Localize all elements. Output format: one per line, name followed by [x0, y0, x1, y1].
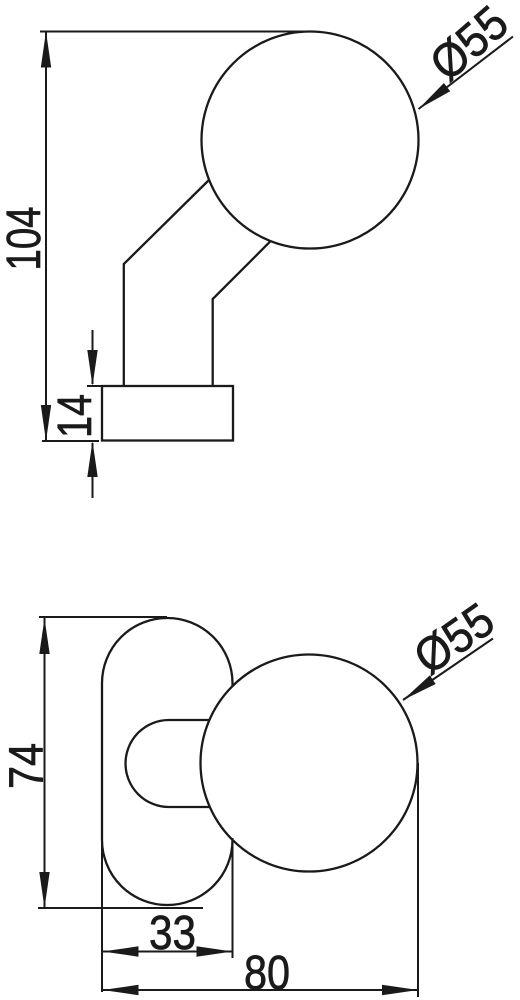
svg-text:104: 104 [0, 207, 51, 271]
wire: neck left outline [124, 180, 210, 387]
svg-text:Ø55: Ø55 [405, 593, 504, 685]
svg-text:74: 74 [1, 743, 54, 789]
arrowhead: 80 left (points left) [103, 985, 139, 995]
svg-text:33: 33 [149, 907, 196, 960]
extension line: top of rosette [39, 616, 167, 618]
rosette stadium outline [102, 618, 233, 905]
arrowhead: 104 bottom (down) [41, 405, 51, 441]
arrowhead: 33 left (points left) [103, 946, 139, 956]
dimension line 14 lower tail [92, 443, 94, 498]
extension line: rosette right edge down [232, 838, 234, 958]
knob ball circle (front view) [201, 655, 418, 872]
dimension line 33 [103, 951, 233, 953]
leader line for Ø55 (top view) [419, 37, 514, 110]
svg-text:14: 14 [49, 394, 102, 438]
svg-text:Ø55: Ø55 [420, 0, 518, 91]
wire: neck right outline [213, 241, 271, 386]
dimension line 74 [44, 617, 46, 908]
svg-text:80: 80 [244, 947, 290, 1000]
dimension line 80 [103, 989, 419, 991]
arrowhead: 74 top (up) [39, 618, 49, 654]
tick: top of base plate [87, 385, 103, 387]
extension line: bottom of base plate (left) [42, 440, 99, 442]
extension line: ball right edge down [417, 763, 419, 997]
dimension line 14 upper tail [92, 330, 94, 384]
knob ball circle (side view) [202, 32, 419, 249]
arrowhead: 14 lower (up) [87, 441, 97, 477]
arrowhead: Ø55 bottom leader (points down-left) [403, 675, 436, 700]
arrowhead: 33 right (points right) [197, 946, 233, 956]
arrowhead: 74 bottom (down) [39, 872, 49, 908]
arrowhead: 80 right (points right) [382, 985, 418, 995]
arrowhead: Ø55 top leader (points down-left) [419, 83, 451, 109]
extension line: bottom of rosette [38, 907, 203, 909]
arrowhead: 104 top (up) [41, 32, 51, 68]
arrowhead: 14 upper (down) [87, 350, 97, 386]
base plate rectangle [102, 386, 233, 441]
leader line for Ø55 (bottom view) [403, 639, 493, 701]
dimension line 104 [45, 32, 47, 442]
extension line: rosette left edge down [101, 838, 103, 992]
extension line: top of ball [40, 31, 310, 33]
neck cross-section (small stadium) [126, 720, 216, 807]
